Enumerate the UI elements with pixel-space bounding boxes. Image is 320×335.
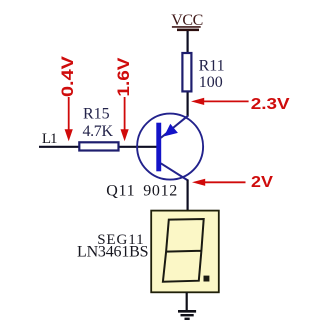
svg-text:R15: R15 (83, 106, 110, 123)
wire R15 to transistor base (118, 146, 157, 148)
transistor Q11 collector line (161, 163, 188, 180)
svg-text:Q119012: Q119012 (106, 183, 178, 200)
resistor R11 body (182, 53, 191, 91)
display decimal point (204, 276, 210, 282)
power VCC bar symbol (177, 29, 199, 32)
transistor Q11 circle (137, 114, 203, 180)
svg-text:0.4V: 0.4V (57, 55, 76, 97)
transistor Q11 base bar (156, 123, 161, 172)
svg-text:100: 100 (199, 74, 223, 91)
wire R11 to transistor emitter (187, 92, 189, 116)
ground (178, 311, 196, 319)
svg-text:2V: 2V (251, 173, 274, 191)
svg-text:1.6V: 1.6V (114, 57, 133, 96)
svg-text:4.7K: 4.7K (83, 123, 114, 140)
wire transistor collector to display (187, 180, 189, 212)
wire L1 to R15 (39, 146, 79, 148)
svg-text:2.3V: 2.3V (251, 94, 290, 112)
annotation 2V arrow (192, 179, 246, 186)
annotation 1.6V arrow (121, 97, 129, 141)
display SEG11 body (151, 211, 219, 293)
resistor R15 body (79, 142, 118, 150)
transistor Q11 emitter arrow (PNP) (164, 124, 178, 137)
power VCC label (171, 12, 203, 29)
svg-text:R11: R11 (199, 58, 225, 75)
display digit 8 outline (163, 219, 204, 282)
svg-text:L1: L1 (42, 131, 57, 147)
annotation 0.4V arrow (65, 97, 73, 141)
transistor Q11 emitter line (161, 116, 188, 138)
wire VCC to R11 (187, 31, 189, 53)
annotation 2.3V arrow (191, 98, 249, 105)
svg-text:LN3461BS: LN3461BS (77, 244, 148, 261)
wire display to ground (186, 292, 188, 311)
